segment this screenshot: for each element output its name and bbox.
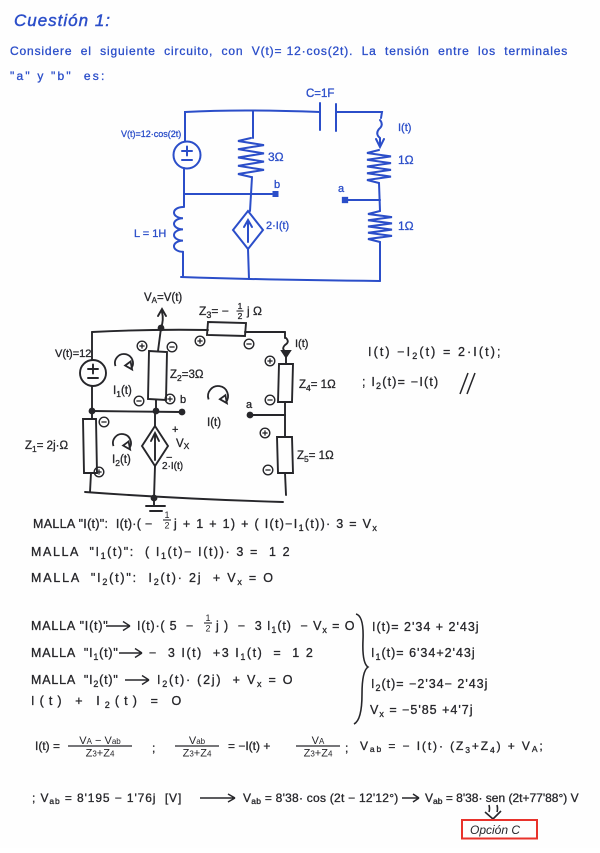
svg-text:Z2=3Ω: Z2=3Ω bbox=[170, 369, 204, 383]
svg-text:Z4= 1Ω: Z4= 1Ω bbox=[299, 379, 336, 393]
wire top rail c2 bbox=[92, 330, 285, 332]
svg-text:Vab = 8'38· cos (2t − 12'12°): Vab = 8'38· cos (2t − 12'12°) bbox=[243, 791, 399, 806]
svg-text:;: ; bbox=[345, 741, 348, 755]
svg-text:MALLA "I1(t)": MALLA "I1(t)" bbox=[31, 646, 119, 662]
svg-text:1: 1 bbox=[205, 613, 210, 623]
current arrow I(t) c2 bbox=[283, 338, 288, 352]
impedance Z2 box bbox=[148, 351, 167, 400]
svg-text:Z1= 2j·Ω: Z1= 2j·Ω bbox=[25, 440, 68, 454]
wire node b row bbox=[184, 193, 272, 195]
svg-text:a: a bbox=[338, 183, 345, 195]
wire diamond to ground c2 bbox=[154, 412, 155, 498]
wire 3ohm to source bbox=[250, 177, 252, 211]
mesh current I2 arrow bbox=[113, 434, 131, 448]
dependent arrow c2 bbox=[151, 433, 159, 460]
svg-text:Z3+Z4: Z3+Z4 bbox=[304, 747, 333, 759]
wire z2 branch bbox=[156, 328, 161, 411]
wire z4 joins bbox=[285, 357, 286, 415]
tick marks bbox=[460, 373, 475, 394]
svg-text:VA − Vab: VA − Vab bbox=[79, 735, 121, 747]
svg-text:Z3+Z4: Z3+Z4 bbox=[183, 747, 212, 759]
node b dot bbox=[273, 191, 279, 197]
svg-text:Vab: Vab bbox=[189, 735, 206, 747]
wire right bottom bbox=[379, 242, 381, 281]
svg-text:I(t)= 2'34 + 2'43j: I(t)= 2'34 + 2'43j bbox=[372, 620, 480, 634]
svg-text:VA=V(t): VA=V(t) bbox=[144, 292, 182, 305]
wire z1 joins bbox=[90, 411, 92, 492]
svg-text:Cuestión 1:: Cuestión 1: bbox=[14, 11, 111, 30]
svg-text:Vx = −5'85 +4'7j: Vx = −5'85 +4'7j bbox=[370, 703, 473, 719]
long arrow 1 bbox=[200, 794, 235, 802]
svg-text:MALLA "I(t)": I(t)·( −: MALLA "I(t)": I(t)·( − bbox=[33, 517, 153, 531]
svg-text:a: a bbox=[246, 399, 253, 411]
svg-text:Z3= −: Z3= − bbox=[199, 304, 229, 320]
svg-text:Vab = 8'38· sen (2t+77'88°) V: Vab = 8'38· sen (2t+77'88°) V bbox=[425, 791, 579, 806]
wire z5 branch bbox=[285, 415, 286, 495]
resistor 3ohm bbox=[238, 138, 264, 177]
dependent source diamond c2 bbox=[142, 426, 168, 466]
wire mid row c2 bbox=[92, 411, 181, 412]
wire diamond to bottom bbox=[248, 249, 249, 279]
wire bottom rail bbox=[181, 277, 380, 281]
node VA arrow bbox=[158, 309, 166, 328]
svg-text:VA: VA bbox=[312, 735, 325, 747]
wire right vertical c2 top bbox=[284, 332, 286, 338]
svg-text:j ) − 3 I1(t) − Vx = O: j ) − 3 I1(t) − Vx = O bbox=[215, 619, 355, 635]
svg-text:I1(t)= 6'34+2'43j: I1(t)= 6'34+2'43j bbox=[371, 646, 476, 662]
svg-text:I1(t): I1(t) bbox=[113, 385, 132, 399]
svg-text:= −I(t) +: = −I(t) + bbox=[228, 739, 270, 753]
svg-text:I(t)·( 5 −: I(t)·( 5 − bbox=[137, 619, 194, 633]
svg-text:Z5= 1Ω: Z5= 1Ω bbox=[297, 450, 334, 464]
svg-text:1Ω: 1Ω bbox=[398, 219, 414, 233]
wire left bottom bbox=[182, 252, 184, 277]
down arrow bbox=[485, 805, 501, 819]
svg-text:2·I(t): 2·I(t) bbox=[162, 461, 183, 472]
mesh current I arrow bbox=[208, 386, 228, 402]
svg-text:1: 1 bbox=[238, 301, 243, 311]
svg-text:V(t)=12·cos(2t): V(t)=12·cos(2t) bbox=[121, 129, 181, 139]
voltage source V1 bbox=[174, 142, 201, 169]
junction dots c2 bbox=[158, 325, 165, 332]
resistor 1ohm upper bbox=[367, 150, 391, 183]
svg-text:C=1F: C=1F bbox=[306, 88, 334, 100]
wire top rail left bbox=[185, 111, 320, 142]
wire source to node bbox=[91, 386, 93, 411]
svg-text:MALLA "I2(t)": MALLA "I2(t)" bbox=[31, 673, 119, 689]
svg-text:I(t): I(t) bbox=[295, 338, 308, 350]
svg-text:Considere el siguiente circ: Considere el siguiente circuito, con V(t… bbox=[10, 44, 568, 58]
svg-text:b: b bbox=[274, 179, 280, 191]
wire top rail right bbox=[336, 112, 382, 118]
impedance Z3 box bbox=[207, 322, 246, 336]
svg-text:;: ; bbox=[152, 741, 155, 755]
svg-text:2: 2 bbox=[164, 521, 169, 531]
svg-text:2·I(t): 2·I(t) bbox=[266, 220, 289, 232]
svg-text:1Ω: 1Ω bbox=[398, 153, 414, 167]
wire 3ohm branch top bbox=[252, 111, 254, 138]
wire right mid bbox=[379, 183, 380, 211]
terminal a stub bbox=[348, 199, 380, 201]
polarity marks bbox=[195, 336, 205, 346]
dependent source diamond 2I(t) bbox=[233, 211, 263, 249]
svg-text:j + 1 + 1) + ( I(t)−I1(t))· 3: j + 1 + 1) + ( I(t)−I1(t))· 3 = Vx bbox=[173, 517, 378, 533]
resistor 1ohm lower bbox=[368, 211, 392, 242]
impedance Z5 box bbox=[277, 437, 293, 473]
brace bbox=[354, 614, 368, 724]
impedance Z4 box bbox=[278, 364, 293, 402]
svg-text:I(t): I(t) bbox=[398, 122, 411, 134]
svg-text:3Ω: 3Ω bbox=[268, 150, 284, 164]
svg-text:I(t) =: I(t) = bbox=[35, 739, 60, 753]
impedance Z1 box bbox=[83, 419, 97, 473]
long arrow 2 bbox=[402, 794, 419, 802]
svg-text:; I2(t)= −I(t): ; I2(t)= −I(t) bbox=[362, 375, 439, 391]
current arrow I(t) bbox=[376, 120, 384, 147]
svg-text:MALLA "I(t)": MALLA "I(t)" bbox=[31, 619, 109, 633]
svg-text:L = 1H: L = 1H bbox=[134, 228, 166, 240]
svg-text:b: b bbox=[180, 394, 186, 406]
svg-text:I2(t)· (2j) + Vx = O: I2(t)· (2j) + Vx = O bbox=[157, 673, 294, 689]
svg-text:1: 1 bbox=[164, 510, 169, 520]
wire left vertical c2 bbox=[91, 332, 93, 360]
svg-text:j Ω: j Ω bbox=[246, 304, 262, 318]
terminal a stub c2 bbox=[252, 414, 285, 416]
svg-text:"a" y "b" es:: "a" y "b" es: bbox=[10, 69, 107, 83]
wire left mid bbox=[183, 168, 185, 207]
svg-text:I(t): I(t) bbox=[207, 417, 221, 429]
wire bottom rail c2 bbox=[85, 492, 283, 502]
svg-text:I(t) −I2(t) = 2·I(t);: I(t) −I2(t) = 2·I(t); bbox=[368, 345, 503, 361]
svg-text:Vab = − I(t)· (Z3+Z4) + VA;: Vab = − I(t)· (Z3+Z4) + VA; bbox=[360, 739, 545, 755]
dependent source arrow bbox=[244, 220, 252, 242]
svg-text:2: 2 bbox=[205, 624, 210, 634]
inductor L1 bbox=[174, 207, 183, 252]
svg-text:Opción C: Opción C bbox=[470, 823, 520, 837]
ground symbol bbox=[146, 498, 165, 511]
capacitor C1 bbox=[320, 103, 336, 131]
svg-text:− 3 I(t) +3 I1(t) = 1 2: − 3 I(t) +3 I1(t) = 1 2 bbox=[149, 646, 314, 662]
svg-text:Z3+Z4: Z3+Z4 bbox=[86, 747, 115, 759]
svg-text:+: + bbox=[172, 424, 178, 436]
svg-text:I2(t)= −2'34− 2'43j: I2(t)= −2'34− 2'43j bbox=[371, 677, 488, 693]
answer box red bbox=[462, 820, 537, 839]
svg-text:I2(t): I2(t) bbox=[112, 454, 131, 468]
svg-text:V(t)=12: V(t)=12 bbox=[55, 348, 91, 360]
svg-text:2: 2 bbox=[238, 311, 243, 321]
mesh current I1 arrow bbox=[115, 354, 133, 368]
source V c2 bbox=[80, 360, 106, 386]
